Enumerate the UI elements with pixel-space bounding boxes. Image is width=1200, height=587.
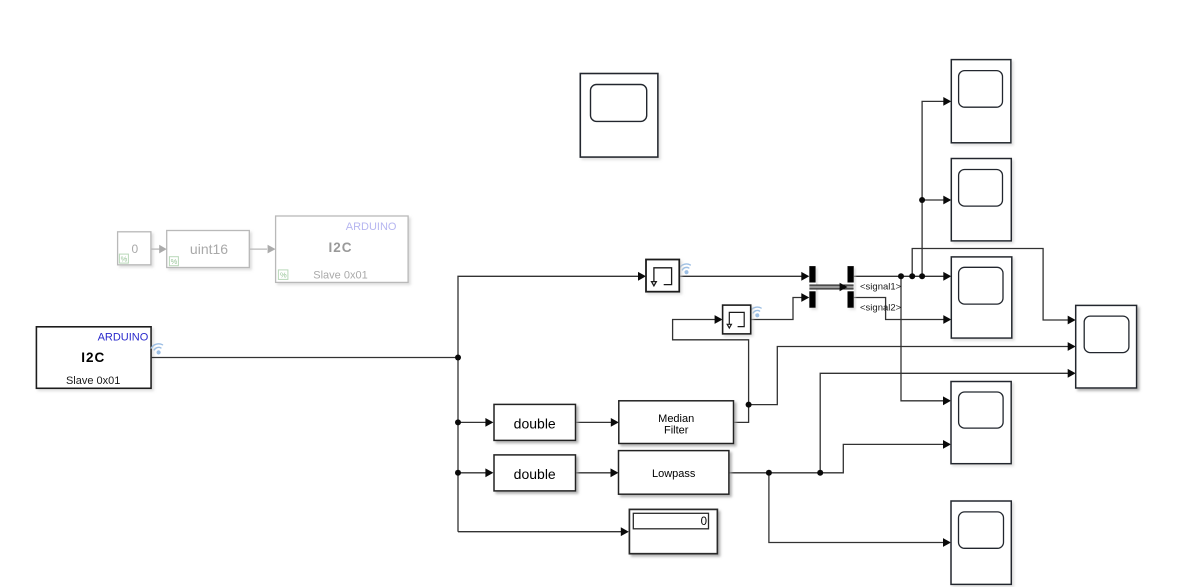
- svg-text:double: double: [514, 416, 556, 432]
- svg-text:Slave 0x01: Slave 0x01: [313, 269, 367, 281]
- svg-text:double: double: [514, 466, 556, 482]
- svg-text:0: 0: [701, 516, 707, 528]
- svg-text:%: %: [280, 271, 287, 280]
- svg-text:I2C: I2C: [328, 240, 352, 255]
- svg-text:ARDUINO: ARDUINO: [346, 221, 397, 233]
- svg-text:0: 0: [131, 242, 138, 256]
- svg-text:ARDUINO: ARDUINO: [98, 332, 149, 344]
- svg-text:Median: Median: [658, 413, 694, 425]
- svg-text:<signal2>: <signal2>: [860, 302, 902, 313]
- svg-text:%: %: [171, 257, 178, 266]
- svg-text:Lowpass: Lowpass: [652, 468, 696, 480]
- svg-text:%: %: [121, 254, 128, 263]
- svg-text:uint16: uint16: [190, 241, 228, 257]
- svg-text:Filter: Filter: [664, 425, 689, 437]
- svg-text:I2C: I2C: [81, 350, 105, 365]
- svg-text:<signal1>: <signal1>: [860, 282, 902, 293]
- svg-text:Slave 0x01: Slave 0x01: [66, 375, 120, 387]
